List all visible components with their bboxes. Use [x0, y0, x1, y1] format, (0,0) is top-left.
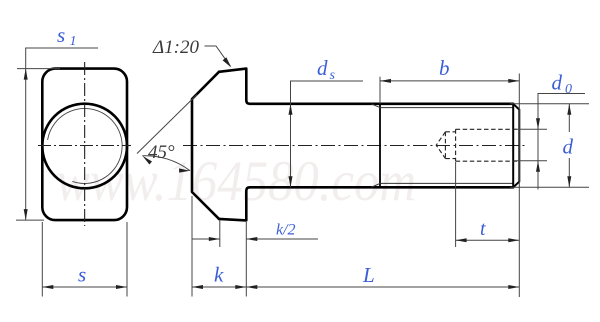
- svg-text:Δ1:20: Δ1:20: [152, 37, 199, 58]
- fillet arc thin circle: [48, 108, 123, 183]
- svg-text:d: d: [317, 56, 328, 80]
- 45 deg arc: [142, 156, 190, 171]
- hole bottom line: [456, 160, 520, 162]
- thread minor diameter bottom: [380, 182, 513, 184]
- end chamfer start line: [512, 104, 514, 188]
- head front view rounded square: [42, 69, 127, 221]
- svg-text:k/2: k/2: [276, 222, 296, 239]
- hole top line: [456, 128, 520, 130]
- dim k/2 tails: [192, 238, 220, 240]
- dim s ext lines: [41, 222, 43, 297]
- arrows s1: [24, 69, 28, 80]
- taper leader: [205, 46, 231, 66]
- shank top edge: [250, 103, 513, 106]
- dim d0 shelf: [538, 94, 585, 190]
- head side view left profile with 45deg chamfers: [192, 72, 219, 219]
- svg-text:d: d: [552, 71, 563, 95]
- dim s1 shelf: [26, 48, 98, 220]
- centerline horizontal front view: [38, 145, 131, 147]
- thread runout diagonal bottom: [371, 183, 380, 187]
- dim b line: [380, 80, 519, 82]
- head bottom tapered edge and right face bottom: [219, 187, 250, 220]
- arrows 45deg arc: [142, 156, 152, 165]
- arrow taper leader: [223, 57, 232, 67]
- svg-text:0: 0: [565, 82, 572, 97]
- shank circle front view: [42, 104, 127, 189]
- thread minor diameter top: [380, 107, 513, 109]
- arrows ds: [289, 104, 293, 115]
- head top tapered edge and right face top: [219, 69, 250, 104]
- center drill hole dashed: [436, 129, 519, 161]
- arrows k: [192, 285, 203, 289]
- thread runout diagonal top: [371, 104, 380, 108]
- centerline main axis: [183, 145, 527, 147]
- arrows d: [567, 104, 571, 115]
- svg-text:t: t: [480, 218, 486, 240]
- dim s1 ext top: [17, 68, 60, 70]
- dim L line: [246, 286, 519, 288]
- arrows b: [380, 79, 391, 83]
- hole cone base vertical: [444, 132, 446, 159]
- dim s1 ext bottom: [16, 219, 44, 221]
- right end long extension line: [518, 74, 520, 298]
- svg-text:s: s: [330, 68, 336, 83]
- svg-text:45°: 45°: [148, 142, 175, 163]
- dim t line: [456, 239, 520, 241]
- shank bottom edge: [250, 186, 513, 189]
- dim d line broken: [568, 104, 570, 132]
- dim k/2 ext line: [219, 220, 221, 247]
- end chamfer diagonals and end face: [513, 104, 519, 188]
- arrows L: [246, 285, 257, 289]
- dim t ext left: [455, 162, 457, 247]
- dim k line: [192, 286, 246, 288]
- svg-text:L: L: [362, 263, 375, 287]
- centerline vertical front view: [84, 62, 86, 226]
- svg-text:1: 1: [70, 34, 77, 49]
- arrows d0: [536, 118, 540, 129]
- svg-text:b: b: [439, 56, 450, 80]
- hole main vertical: [455, 129, 457, 161]
- hole step horizontals: [445, 131, 455, 133]
- dim b ext left: [379, 77, 381, 104]
- svg-text:s: s: [57, 23, 65, 47]
- svg-text:s: s: [78, 263, 86, 287]
- hole ext lines: [514, 128, 547, 130]
- svg-text:d: d: [563, 135, 574, 159]
- thread start line: [379, 104, 381, 188]
- svg-text:k: k: [214, 263, 224, 287]
- arrows t: [456, 238, 467, 242]
- 45 deg thin line: [137, 95, 197, 154]
- dim s line: [42, 286, 127, 288]
- arrows s: [42, 285, 53, 289]
- arrows k/2: [209, 237, 220, 241]
- dim k ext lines: [191, 196, 193, 297]
- dim d ext lines: [510, 103, 589, 105]
- dim ds shelf: [291, 81, 364, 187]
- hole cone: [436, 132, 445, 159]
